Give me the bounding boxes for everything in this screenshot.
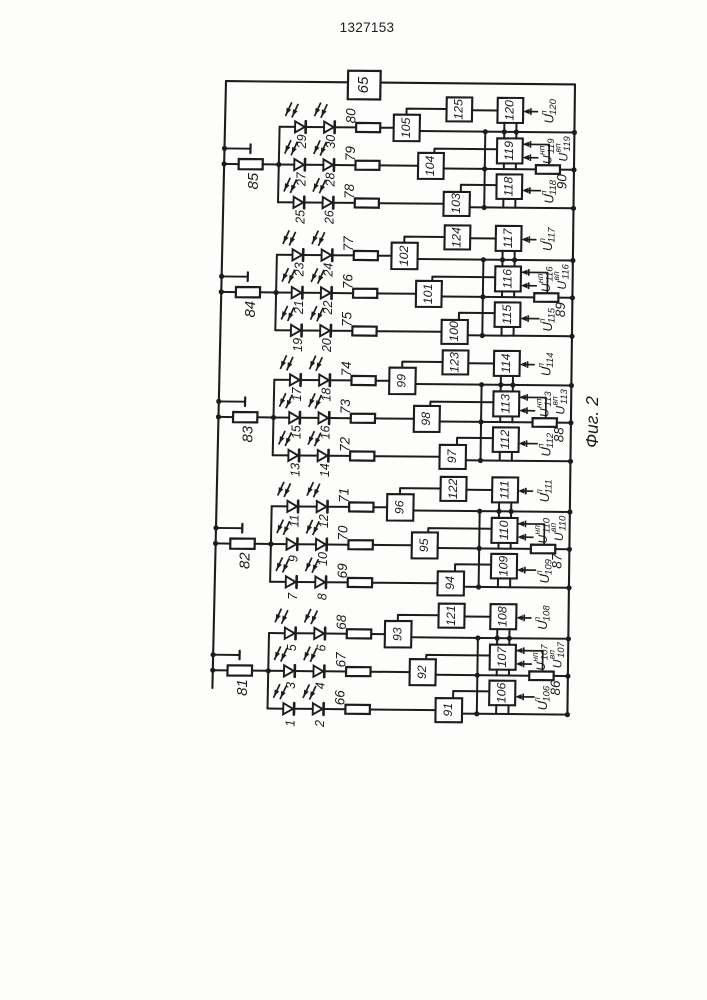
- output arrow 118: [522, 187, 541, 194]
- svg-text:77: 77: [341, 236, 356, 252]
- svg-text:10: 10: [316, 552, 330, 566]
- svg-text:81: 81: [234, 679, 251, 696]
- output arrow lower 119: [523, 154, 539, 161]
- resistor 81: [227, 665, 252, 675]
- light arrows 4: [304, 647, 317, 662]
- block 109: [491, 554, 517, 579]
- amplifier 101: [416, 281, 442, 307]
- svg-text:Uп118: Uп118: [539, 179, 559, 203]
- wire net H3 group 1: [462, 714, 567, 715]
- light arrows 14: [308, 431, 321, 446]
- amplifier 103: [443, 192, 470, 216]
- svg-text:73: 73: [338, 399, 353, 415]
- block 122: [440, 477, 466, 501]
- junction group bus H2 group 3: [478, 419, 483, 424]
- output arrow 114: [520, 361, 535, 368]
- amplifier 105: [394, 115, 421, 142]
- block 111: [492, 477, 518, 502]
- svg-text:115: 115: [500, 305, 514, 325]
- label U_109: [534, 558, 554, 583]
- label 74: [339, 361, 354, 376]
- wire row 73 to resistor: [329, 417, 351, 419]
- svg-text:79: 79: [343, 146, 358, 162]
- wire stubs 107-H2: [497, 670, 509, 676]
- label 67: [333, 652, 348, 668]
- wire row 79 to resistor: [334, 164, 356, 166]
- wire stubs 114-113: [501, 376, 513, 392]
- wire stubs 110-H2: [499, 543, 511, 549]
- svg-text:72: 72: [337, 436, 352, 452]
- svg-text:1327153: 1327153: [340, 20, 395, 35]
- wire net H1 group 1: [411, 637, 568, 639]
- label 78: [342, 183, 357, 199]
- label 65: [355, 76, 372, 93]
- photodiode 5: [285, 628, 296, 640]
- wire resistor 88 to bus: [557, 422, 571, 424]
- amplifier 97: [439, 445, 466, 469]
- wire resistor 87 to bus: [555, 548, 569, 550]
- junction group bus H1 group 1: [475, 635, 480, 640]
- resistor 77: [354, 251, 378, 260]
- label 17: [290, 386, 304, 401]
- resistor 73: [351, 414, 375, 423]
- label 113: [499, 394, 513, 414]
- label 6: [314, 644, 328, 651]
- photodiode 14: [318, 450, 329, 462]
- wire row 74 mid: [301, 379, 320, 381]
- output arrow upper 116: [521, 269, 548, 293]
- wire stubs 108-107: [497, 629, 509, 645]
- svg-text:8: 8: [315, 593, 329, 600]
- output arrow lower 107: [516, 661, 532, 668]
- label 28: [323, 173, 337, 188]
- resistor 86: [529, 671, 554, 680]
- label 110: [497, 520, 511, 540]
- photodiode 8: [315, 576, 326, 588]
- photodiode 7: [286, 576, 297, 588]
- label 66: [333, 690, 348, 706]
- label 25: [294, 210, 308, 225]
- wire row 78 left: [278, 201, 294, 203]
- wire amp 104 to block 119: [434, 149, 497, 153]
- junction bus stub group 2: [213, 525, 218, 530]
- wire row 75 mid: [302, 330, 321, 332]
- label U_114: [536, 352, 556, 376]
- label 122: [446, 478, 460, 499]
- label 107: [495, 646, 509, 668]
- label 19: [291, 338, 305, 352]
- junction node group 4: [274, 290, 279, 295]
- amplifier 98: [414, 406, 440, 432]
- wire row 77 to resistor: [332, 254, 354, 256]
- wire row 74 left: [274, 379, 290, 381]
- output arrow 115: [520, 315, 539, 322]
- output arrow lower 110: [517, 534, 533, 541]
- label U_107 upper: [547, 641, 567, 668]
- svg-text:75: 75: [340, 311, 355, 327]
- block 121: [438, 604, 464, 628]
- svg-text:19: 19: [291, 338, 305, 352]
- output arrow 120: [523, 108, 538, 115]
- wire row 78 mid: [304, 202, 323, 204]
- label 120: [503, 100, 517, 121]
- resistor 78: [355, 198, 379, 207]
- resistor 90: [536, 165, 560, 174]
- junction group bus H1 group 5: [483, 129, 488, 134]
- svg-text:30: 30: [324, 135, 338, 149]
- light arrows 23: [283, 230, 296, 245]
- block 125: [446, 97, 472, 121]
- junction bus H3 group 4: [569, 334, 574, 339]
- label U_113 lower: [534, 391, 554, 417]
- wire resistor 78 to amp 103: [379, 202, 444, 205]
- svg-text:Uп106: Uп106: [532, 685, 552, 710]
- label 80: [343, 108, 358, 124]
- light arrows 22: [311, 268, 324, 283]
- wire bus to resistor 82: [216, 542, 231, 544]
- output arrow upper 119: [523, 141, 550, 165]
- label 76: [340, 274, 355, 290]
- label 102: [397, 245, 411, 266]
- amplifier 92: [410, 659, 436, 685]
- wire top bus right segment: [381, 83, 576, 85]
- wire stubs 113-H2: [500, 416, 512, 422]
- wire stubs 118-H3: [503, 199, 515, 208]
- photodiode 27: [294, 159, 305, 171]
- junction bus H3 group 2: [566, 585, 571, 590]
- amplifier 102: [391, 243, 418, 270]
- light arrows 24: [312, 231, 325, 246]
- junction bus H2 group 1: [565, 674, 570, 679]
- block 107: [490, 645, 516, 670]
- label 4: [314, 682, 328, 689]
- photodiode 6: [314, 628, 325, 640]
- svg-text:105: 105: [399, 117, 413, 138]
- junction node group 2: [268, 541, 273, 546]
- svg-text:110: 110: [497, 520, 511, 540]
- wire row 71 mid: [298, 506, 317, 508]
- label 91: [441, 703, 455, 717]
- label 105: [399, 117, 413, 138]
- wire amp 96 to block 122: [400, 488, 441, 494]
- junction bus H2 group 4: [570, 295, 575, 300]
- label 103: [449, 193, 463, 214]
- svg-text:14: 14: [318, 463, 332, 477]
- wire resistor 86 to bus: [554, 675, 568, 677]
- label U_107 lower: [530, 644, 550, 671]
- wire row 74 to resistor: [330, 379, 352, 381]
- label 93: [390, 627, 404, 641]
- label 11: [287, 514, 301, 527]
- wire row 72 mid: [299, 455, 318, 457]
- svg-text:118: 118: [502, 177, 516, 197]
- label 20: [320, 338, 334, 353]
- svg-text:Uп109: Uп109: [534, 558, 554, 583]
- label 106: [495, 682, 509, 703]
- wire row 80 left: [280, 126, 296, 128]
- label 94: [443, 576, 457, 590]
- label 24: [322, 263, 336, 278]
- svg-text:82: 82: [237, 552, 254, 569]
- label 18: [319, 388, 333, 402]
- label 14: [318, 463, 332, 477]
- label 125: [452, 99, 466, 120]
- output arrow 108: [516, 615, 531, 622]
- wire row 70 to resistor: [327, 544, 349, 546]
- photodiode 11: [287, 501, 298, 513]
- resistor 76: [353, 289, 377, 298]
- svg-text:84: 84: [242, 301, 259, 318]
- junction stub H1 b group 2: [509, 509, 514, 514]
- svg-text:91: 91: [441, 703, 455, 717]
- label U_106: [532, 685, 552, 710]
- wire row 77 mid: [303, 254, 322, 256]
- wire resistor 82 to node: [255, 543, 271, 545]
- junction group bus H3 group 5: [482, 205, 487, 210]
- wire stubs 109-H3: [498, 578, 510, 587]
- amplifier 100: [441, 320, 468, 344]
- block 110: [491, 518, 517, 543]
- photodiode 9: [287, 538, 298, 550]
- node stub tick group 4: [222, 272, 248, 281]
- svg-text:112: 112: [498, 430, 512, 450]
- svg-text:103: 103: [449, 193, 463, 214]
- wire row 73 mid: [300, 417, 319, 419]
- block 115: [495, 302, 521, 327]
- svg-text:70: 70: [336, 525, 351, 541]
- label 119: [502, 141, 516, 161]
- svg-text:71: 71: [336, 488, 351, 503]
- resistor 87: [531, 545, 556, 554]
- label 83: [239, 425, 256, 442]
- output arrow 106: [515, 694, 534, 701]
- wire block 124 to block 117: [470, 237, 496, 239]
- junction bus group 5: [222, 161, 227, 166]
- light arrows 29: [286, 102, 299, 117]
- photodiode 24: [322, 249, 333, 261]
- svg-text:Uп117: Uп117: [537, 227, 557, 251]
- svg-text:3: 3: [284, 682, 298, 689]
- svg-text:107: 107: [495, 646, 509, 668]
- svg-text:95: 95: [417, 538, 431, 552]
- junction stub H1 b group 1: [507, 636, 512, 641]
- svg-text:114: 114: [499, 353, 513, 373]
- wire amp 98 to block 113: [430, 402, 493, 406]
- svg-text:78: 78: [342, 183, 357, 199]
- junction stub H1 a group 3: [498, 382, 503, 387]
- svg-text:121: 121: [444, 605, 458, 626]
- svg-text:106: 106: [495, 682, 509, 703]
- wire amp 91 to block 106: [453, 691, 489, 698]
- wire row 76 mid: [302, 292, 321, 294]
- label 124: [450, 227, 464, 248]
- wire resistor 73 to amp 98: [375, 417, 414, 419]
- photodiode 20: [320, 325, 331, 337]
- junction stub H1 a group 4: [500, 257, 505, 262]
- junction node group 3: [271, 415, 276, 420]
- label 101: [421, 284, 435, 305]
- label 79: [343, 146, 358, 162]
- wire bus to resistor 81: [213, 669, 228, 671]
- resistor 80: [356, 123, 380, 132]
- svg-text:1: 1: [283, 720, 297, 727]
- wire block 121 to block 108: [465, 616, 491, 618]
- wire left bus: [212, 81, 226, 688]
- label U_117: [537, 227, 557, 251]
- svg-text:124: 124: [450, 227, 464, 248]
- wire resistor 75 to amp 100: [377, 330, 442, 333]
- junction bus group 2: [213, 541, 218, 546]
- label 8: [315, 593, 329, 600]
- resistor 67: [346, 667, 371, 676]
- light arrows 15: [280, 393, 293, 408]
- wire stubs 116-H2: [502, 291, 514, 297]
- label U_110 lower: [532, 517, 552, 543]
- wire group bus group 1: [477, 638, 478, 714]
- junction bus H2 group 3: [568, 420, 573, 425]
- wire row 80 to resistor: [335, 126, 357, 128]
- output arrow 112: [519, 440, 538, 447]
- resistor 89: [534, 293, 558, 302]
- svg-text:80: 80: [343, 108, 358, 124]
- svg-text:66: 66: [333, 690, 348, 706]
- output arrow lower 116: [521, 282, 537, 289]
- junction bus group 3: [216, 414, 221, 419]
- wire resistor 90 to bus: [560, 169, 574, 171]
- wire bus to resistor 83: [219, 416, 234, 418]
- light arrows 6: [305, 609, 318, 624]
- node stub tick group 3: [219, 397, 245, 406]
- label U_119 upper: [553, 135, 573, 161]
- wire net H2 group 3: [440, 421, 533, 424]
- block 116: [495, 266, 521, 291]
- node column group 3: [273, 380, 275, 456]
- label 96: [393, 500, 407, 514]
- svg-text:15: 15: [289, 425, 303, 439]
- wire resistor 81 to node: [252, 670, 268, 672]
- label 114: [499, 353, 513, 373]
- wire row 79 left: [279, 164, 295, 166]
- junction bus H1 group 2: [567, 509, 572, 514]
- light arrows 7: [276, 557, 289, 572]
- junction group bus H1 group 2: [477, 509, 482, 514]
- svg-text:76: 76: [340, 274, 355, 290]
- svg-text:Uп111: Uп111: [534, 479, 554, 502]
- label 100: [447, 321, 461, 342]
- resistor 83: [233, 412, 258, 422]
- wire row 67 left: [268, 670, 284, 672]
- svg-text:20: 20: [320, 338, 334, 353]
- wire amp 99 to block 123: [402, 362, 442, 368]
- wire resistor 84 to node: [260, 291, 276, 293]
- svg-text:92: 92: [415, 665, 429, 679]
- output arrow 111: [518, 488, 533, 495]
- block 123: [442, 350, 468, 374]
- resistor 71: [349, 502, 373, 511]
- label 2: [313, 720, 327, 728]
- svg-text:4: 4: [314, 682, 328, 689]
- light arrows 28: [314, 140, 327, 155]
- svg-text:120: 120: [503, 100, 517, 121]
- block 112: [493, 427, 519, 452]
- light arrows 19: [281, 306, 294, 321]
- junction group bus H2 group 4: [480, 294, 485, 299]
- output arrow upper 113: [519, 394, 546, 418]
- svg-text:Uп112: Uп112: [536, 432, 556, 456]
- wire stubs 111-110: [499, 502, 511, 518]
- wire stubs 106-H3: [496, 705, 508, 714]
- svg-text:125: 125: [452, 99, 466, 120]
- label 90: [554, 174, 569, 190]
- svg-text:122: 122: [446, 478, 460, 499]
- junction bus group 1: [210, 668, 215, 673]
- junction bus H1 group 1: [566, 636, 571, 641]
- junction bus H1 group 5: [572, 130, 577, 135]
- light arrows 2: [303, 684, 316, 699]
- junction bus stub group 3: [216, 399, 221, 404]
- wire row 68 to resistor: [325, 633, 347, 635]
- wire row 71 left: [272, 505, 288, 507]
- svg-text:117: 117: [501, 227, 515, 248]
- svg-text:74: 74: [339, 361, 354, 376]
- label 9: [287, 555, 301, 562]
- photodiode 25: [293, 197, 304, 209]
- node column group 1: [268, 633, 270, 709]
- wire row 72 to resistor: [328, 455, 350, 457]
- resistor 72: [350, 451, 374, 460]
- junction group bus H2 group 2: [477, 546, 482, 551]
- wire row 68 left: [269, 632, 285, 634]
- wire block 122 to block 111: [466, 489, 492, 491]
- label 84: [242, 301, 259, 318]
- wire row 68 mid: [296, 632, 315, 634]
- light arrows 11: [278, 482, 291, 497]
- wire row 77 left: [277, 254, 293, 256]
- photodiode 4: [313, 666, 324, 678]
- label 70: [336, 525, 351, 541]
- node column group 2: [270, 506, 272, 582]
- wire resistor 79 to amp 104: [380, 164, 419, 166]
- label 15: [289, 425, 303, 439]
- wire resistor 83 to node: [257, 416, 273, 418]
- svg-text:93: 93: [390, 627, 404, 641]
- wire net H3 group 2: [464, 587, 569, 588]
- label 26: [323, 210, 337, 225]
- resistor 88: [533, 418, 557, 427]
- amplifier 94: [437, 571, 464, 595]
- label 75: [340, 311, 355, 327]
- photodiode 17: [290, 374, 301, 386]
- wire row 76 to resistor: [332, 292, 354, 294]
- junction bus stub group 1: [211, 652, 216, 657]
- label 87: [550, 553, 565, 569]
- wire row 70 mid: [297, 543, 316, 545]
- label 116: [500, 269, 514, 289]
- light arrows 1: [274, 684, 287, 699]
- photodiode 22: [321, 287, 332, 299]
- label U_112: [536, 432, 556, 456]
- label 112: [498, 430, 512, 450]
- svg-text:109: 109: [496, 556, 510, 577]
- label 95: [417, 538, 431, 552]
- wire row 75 to resistor: [331, 330, 353, 332]
- photodiode 2: [313, 703, 324, 715]
- label U_119 lower: [537, 138, 557, 164]
- svg-text:101: 101: [421, 284, 435, 305]
- resistor 79: [355, 161, 379, 170]
- output arrow upper 110: [518, 521, 545, 545]
- label U_108: [532, 605, 552, 630]
